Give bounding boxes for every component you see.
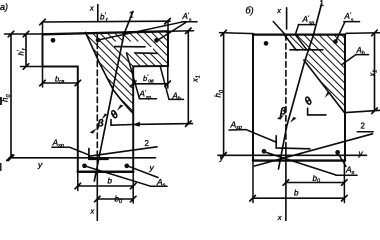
svg-text:Ab: Ab	[356, 46, 365, 57]
svg-text:1: 1	[320, 0, 325, 8]
svg-text:x: x	[90, 207, 95, 216]
svg-text:x: x	[277, 213, 282, 221]
svg-text:2: 2	[145, 139, 150, 148]
svg-text:x1: x1	[368, 70, 379, 78]
svg-text:y: y	[219, 153, 225, 163]
svg-text:b0: b0	[115, 195, 123, 206]
svg-text:1: 1	[129, 11, 134, 20]
svg-text:б): б)	[246, 6, 254, 16]
svg-text:b′ов: b′ов	[143, 74, 154, 85]
svg-text:x1: x1	[191, 75, 202, 83]
svg-text:As: As	[156, 177, 166, 189]
svg-text:Ab: Ab	[172, 92, 181, 103]
svg-text:y: y	[358, 148, 364, 158]
svg-text:bсв: bсв	[55, 75, 65, 86]
svg-text:Asp: Asp	[52, 138, 64, 150]
svg-text:As: As	[345, 165, 355, 177]
svg-text:b0: b0	[313, 174, 321, 185]
svg-text:b: b	[108, 177, 113, 186]
svg-text:x: x	[276, 6, 281, 15]
svg-text:y: y	[37, 160, 43, 170]
svg-text:Asp: Asp	[230, 120, 242, 132]
svg-text:β: β	[279, 107, 286, 118]
svg-text:x: x	[89, 4, 94, 13]
svg-text:b: b	[294, 189, 299, 198]
svg-text:а): а)	[0, 2, 8, 12]
svg-text:2: 2	[361, 122, 366, 131]
svg-text:β: β	[97, 119, 104, 130]
svg-text:y: y	[149, 163, 155, 173]
svg-text:θ: θ	[302, 95, 315, 109]
